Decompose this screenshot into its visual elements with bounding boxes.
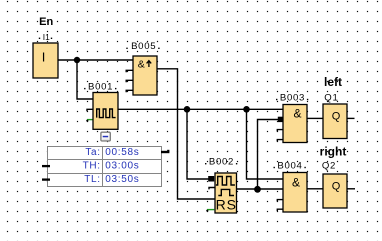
AND gate B005 bbox=[133, 56, 157, 95]
wire B003 output to Q1 bbox=[307, 117, 323, 119]
svg-text:03:00s: 03:00s bbox=[105, 161, 139, 172]
node junction at I1 output bbox=[74, 57, 80, 63]
node junction B002 out bbox=[254, 186, 261, 193]
svg-text:I: I bbox=[42, 50, 46, 65]
svg-text:TH:: TH: bbox=[83, 161, 101, 172]
wire B005 output to B002 input 3 bbox=[157, 69, 215, 199]
parameter table bbox=[48, 147, 162, 187]
wire Q1 output stub bbox=[347, 117, 355, 119]
AND gate B003 stubs bbox=[277, 130, 283, 142]
svg-text:Q2: Q2 bbox=[322, 160, 336, 171]
svg-text:Q: Q bbox=[332, 181, 341, 193]
node junction B001 out / B004 branch bbox=[243, 106, 250, 113]
wire branch up to B003 input 2 bbox=[258, 120, 279, 190]
svg-text:RS: RS bbox=[216, 196, 237, 212]
B001 pulse waveform icon bbox=[97, 109, 116, 118]
node junction B001 out / B002 branch bbox=[184, 106, 191, 113]
wire branch down to B001 input 1 bbox=[77, 60, 93, 99]
wire I1 output to B005 input 1 bbox=[58, 59, 133, 61]
wire B001 output bus to B003 input 1 bbox=[118, 108, 283, 110]
svg-text:&: & bbox=[138, 58, 145, 70]
svg-text:B003: B003 bbox=[280, 92, 305, 103]
negation square B002 input 1 bbox=[208, 176, 214, 182]
svg-text:I1: I1 bbox=[43, 32, 50, 42]
svg-text:B004: B004 bbox=[277, 160, 302, 171]
wire B004 output to Q2 bbox=[307, 188, 323, 190]
negation square B003 input 2 bbox=[278, 117, 283, 122]
svg-text:B002: B002 bbox=[209, 157, 234, 168]
wire bold stub left row3 bbox=[42, 178, 50, 180]
svg-text:Q1: Q1 bbox=[324, 92, 338, 103]
pulse relay B002 stub input 2 bbox=[209, 188, 215, 190]
output Q2 block bbox=[323, 174, 347, 208]
svg-text:TL:: TL: bbox=[84, 174, 101, 185]
svg-text:&: & bbox=[293, 107, 301, 121]
wire Q2 output stub bbox=[347, 188, 355, 190]
input I1 block bbox=[33, 43, 58, 78]
svg-text:Ta:: Ta: bbox=[85, 147, 100, 158]
wire branch down to B004 input 1 bbox=[247, 109, 284, 179]
wire B002 output to B004 input 2 bbox=[237, 188, 284, 190]
pulse generator B001 stub input 2 bbox=[87, 109, 93, 111]
svg-text:right: right bbox=[320, 145, 347, 159]
AND gate B004 stubs bbox=[277, 200, 283, 212]
svg-text:En: En bbox=[39, 16, 53, 28]
collapse minus button bbox=[100, 132, 111, 142]
svg-text:00:58s: 00:58s bbox=[105, 147, 139, 158]
svg-text:left: left bbox=[324, 75, 342, 89]
svg-text:03:50s: 03:50s bbox=[105, 174, 139, 185]
AND gate B003 bbox=[283, 105, 307, 143]
B002 single pulse icon bbox=[218, 189, 234, 195]
AND gate B004 bbox=[283, 173, 307, 213]
svg-text:B005: B005 bbox=[131, 41, 156, 52]
wire bold stub left row2 bbox=[42, 165, 50, 167]
B001 green par stub bbox=[87, 119, 94, 121]
svg-text:&: & bbox=[292, 176, 300, 190]
svg-text:B001: B001 bbox=[88, 82, 113, 93]
B002 double pulse icon bbox=[216, 177, 235, 186]
wire branch down to B002 input 1 bbox=[187, 109, 209, 179]
output Q1 block bbox=[323, 104, 347, 139]
wire bold stub right row1 bbox=[161, 151, 169, 153]
B002 green par stub bbox=[207, 209, 214, 211]
svg-text:Q: Q bbox=[332, 111, 341, 123]
pulse generator B001 bbox=[93, 93, 118, 130]
op block B005 stubs bbox=[126, 70, 133, 92]
pulse relay B002 bbox=[215, 173, 237, 213]
